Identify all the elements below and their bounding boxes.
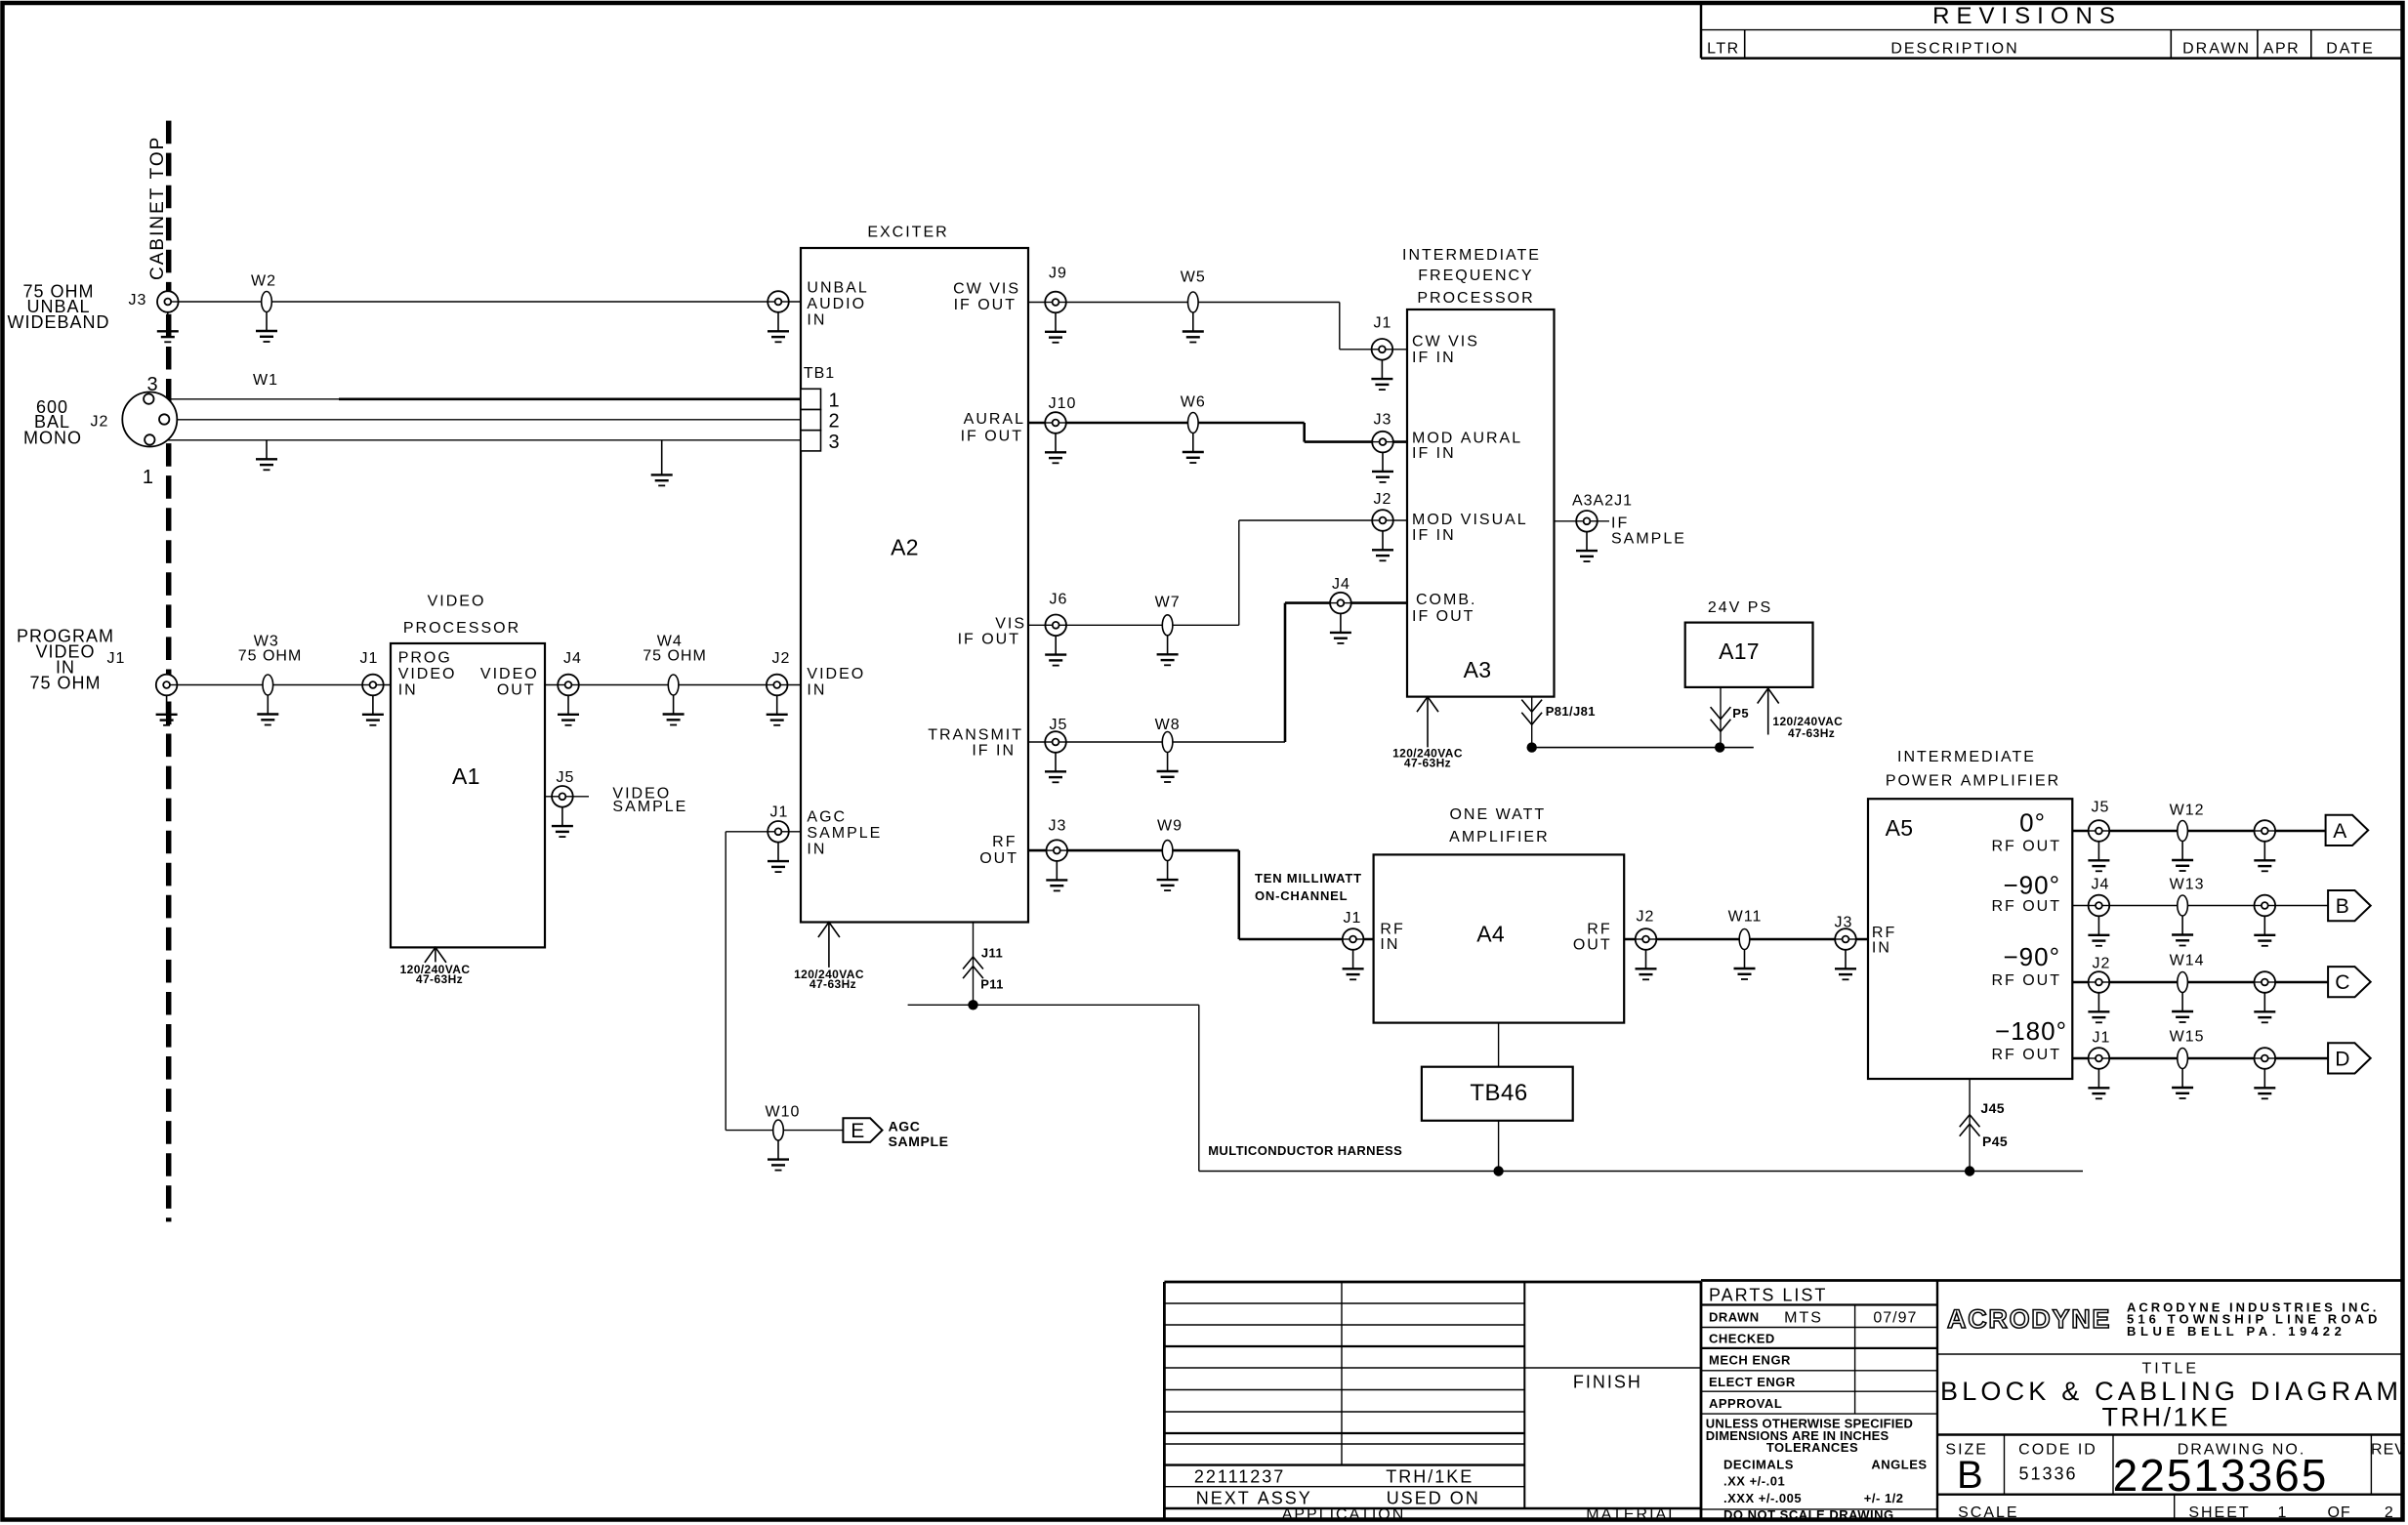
svg-text:REV: REV	[2371, 1442, 2406, 1459]
svg-text:−90°: −90°	[2003, 942, 2060, 971]
svg-text:J4: J4	[2092, 877, 2110, 893]
svg-text:ANGLES: ANGLES	[1871, 1458, 1927, 1472]
svg-text:−180°: −180°	[1995, 1016, 2067, 1046]
wire TB46 stems	[1498, 1023, 1500, 1172]
svg-text:22111237: 22111237	[1194, 1466, 1285, 1486]
svg-text:75 OHM: 75 OHM	[643, 648, 707, 665]
svg-text:2: 2	[2385, 1504, 2394, 1521]
svg-text:J2: J2	[772, 650, 791, 667]
svg-text:.XXX +/-.005: .XXX +/-.005	[1723, 1491, 1802, 1505]
svg-text:P81/J81: P81/J81	[1546, 704, 1596, 719]
mech engr row	[1709, 1353, 1791, 1368]
svg-text:A1: A1	[452, 763, 480, 789]
label pin 1	[143, 467, 153, 488]
svg-text:OUT: OUT	[1573, 936, 1612, 953]
ground at output B connector	[2254, 916, 2275, 946]
scale sheet row	[1958, 1504, 2394, 1521]
svg-text:J1: J1	[1374, 315, 1392, 332]
svg-text:TRH/1KE: TRH/1KE	[2102, 1403, 2231, 1432]
label A1 video out	[480, 666, 539, 699]
svg-text:VIS: VIS	[995, 615, 1026, 632]
wire program video row J1 to J2	[170, 684, 801, 686]
svg-text:IF IN: IF IN	[1412, 527, 1456, 544]
label J9	[1049, 266, 1067, 282]
ground at J5 video sample	[552, 807, 573, 838]
video processor A1 box	[391, 643, 545, 947]
label W10	[766, 1103, 801, 1120]
svg-text:RF: RF	[1587, 921, 1611, 937]
label P5	[1732, 706, 1749, 721]
svg-text:IF IN: IF IN	[1412, 445, 1456, 462]
label J45	[1980, 1100, 2005, 1116]
ground at J3 rf out	[1046, 861, 1067, 891]
ground at J3 A5	[1835, 950, 1856, 980]
svg-text:J5: J5	[2092, 800, 2110, 816]
svg-text:MONO: MONO	[23, 428, 82, 447]
svg-text:W14: W14	[2170, 953, 2205, 969]
label J4 A3	[1332, 576, 1350, 593]
ground at W5	[1183, 312, 1204, 343]
svg-text:MOD VISUAL: MOD VISUAL	[1412, 512, 1528, 528]
label W7	[1155, 595, 1181, 611]
label video sample	[612, 786, 687, 815]
connector pair P81/J81	[1521, 700, 1542, 725]
svg-text:SCALE: SCALE	[1958, 1504, 2018, 1521]
label ten milliwatt on-channel	[1255, 871, 1362, 903]
ground at output C connector	[2254, 993, 2275, 1023]
label J2 xlr	[91, 414, 109, 431]
connector J2 A3 mod visual if in	[1372, 510, 1393, 531]
svg-text:51336: 51336	[2018, 1464, 2077, 1484]
flag output C	[2328, 967, 2371, 997]
svg-text:A: A	[2333, 820, 2346, 843]
label transmit if in	[928, 727, 1023, 760]
svg-text:MATERIAL: MATERIAL	[1586, 1506, 1679, 1523]
label -90 deg rf out B	[1991, 870, 2061, 915]
connector J9 cw vis if out	[1045, 292, 1066, 313]
svg-text:P11: P11	[980, 977, 1004, 992]
svg-text:J3: J3	[1049, 818, 1067, 835]
svg-text:A17: A17	[1719, 639, 1760, 664]
wire XLR pin1 to TB1-3	[155, 439, 802, 441]
wire J3 to J4 unbal audio	[171, 301, 801, 303]
label aural if out	[961, 411, 1025, 444]
wire AGC sample J1 to E flag	[726, 832, 843, 1131]
flag E agc sample	[843, 1118, 882, 1142]
label A17	[1719, 639, 1760, 664]
label J3 A3	[1374, 412, 1392, 429]
label IPA title	[1886, 749, 2060, 790]
connector J3 A3 mod aural if in	[1372, 432, 1393, 453]
cable W5	[1188, 292, 1199, 312]
svg-text:J1: J1	[2093, 1030, 2111, 1047]
svg-text:W6: W6	[1181, 394, 1206, 411]
svg-text:VIDEO: VIDEO	[480, 666, 539, 682]
svg-text:COMB.: COMB.	[1416, 592, 1476, 608]
exciter A2 box	[801, 248, 1028, 923]
svg-text:TRANSMIT: TRANSMIT	[928, 727, 1023, 744]
flag output D	[2328, 1043, 2371, 1073]
checked row	[1709, 1332, 1775, 1346]
flag output A	[2326, 815, 2369, 845]
ground at J1 program video	[156, 695, 178, 725]
cable W14	[2178, 972, 2188, 993]
svg-text:W5: W5	[1181, 268, 1206, 285]
cable W15	[2178, 1049, 2188, 1069]
svg-text:J5: J5	[556, 769, 574, 786]
wire J45 drop from A5	[1969, 1079, 1971, 1172]
ground near TB1	[651, 440, 673, 486]
connector A3A2J1 if sample	[1576, 511, 1598, 532]
ground at W3	[257, 695, 278, 725]
label A1 prog video in	[398, 649, 457, 698]
wire AC power bus	[1532, 687, 1754, 748]
svg-text:J5: J5	[1050, 717, 1068, 733]
svg-text:BLUE BELL PA. 19422: BLUE BELL PA. 19422	[2127, 1324, 2346, 1339]
ground at J4 A1	[558, 695, 579, 725]
connector J1 A1 prog video	[362, 675, 384, 696]
connector J4 A1 video out	[558, 675, 579, 696]
one watt amplifier A4 box	[1374, 854, 1625, 1022]
label P45	[1982, 1133, 2008, 1149]
svg-text:RF: RF	[1872, 925, 1896, 941]
label A3	[1464, 657, 1492, 682]
svg-text:D: D	[2335, 1048, 2349, 1070]
connector J5 A5 rf out 0deg	[2089, 820, 2110, 842]
ground at J4 audio in	[768, 312, 789, 343]
label unbal audio in	[807, 280, 868, 329]
ground at W4	[663, 695, 685, 725]
label W3 75 ohm	[238, 634, 303, 665]
svg-text:FINISH: FINISH	[1573, 1372, 1642, 1391]
label exciter video in	[807, 666, 865, 699]
ground at J3 unbal	[157, 312, 179, 343]
ground at W11	[1734, 950, 1756, 980]
svg-text:USED ON: USED ON	[1387, 1488, 1480, 1507]
connector output row C	[2255, 971, 2276, 993]
label 0 deg rf out	[1991, 807, 2061, 854]
ground at J1 A5	[2088, 1069, 2109, 1099]
ground at J9	[1045, 312, 1066, 343]
svg-text:47-63Hz: 47-63Hz	[1404, 757, 1451, 770]
label P81/J81	[1546, 704, 1596, 719]
label J2 A3	[1374, 491, 1392, 508]
wire P11 branch line	[908, 1005, 1199, 1171]
connector J1 A3 cw vis if in	[1372, 339, 1393, 360]
label J6	[1050, 592, 1068, 608]
label IF processor title	[1402, 247, 1541, 307]
svg-text:TRH/1KE: TRH/1KE	[1386, 1466, 1474, 1486]
svg-text:RF OUT: RF OUT	[1991, 1047, 2061, 1063]
wire A5 J2 RF out row C	[2072, 981, 2328, 984]
label W5	[1181, 268, 1206, 285]
cable W4	[668, 675, 679, 695]
svg-text:2: 2	[829, 411, 840, 433]
svg-text:ON-CHANNEL: ON-CHANNEL	[1255, 888, 1348, 903]
svg-text:MULTICONDUCTOR HARNESS: MULTICONDUCTOR HARNESS	[1208, 1143, 1402, 1158]
svg-text:A3A2J1: A3A2J1	[1572, 492, 1633, 509]
junction TB46 harness node	[1493, 1166, 1503, 1175]
svg-text:DRAWN: DRAWN	[2182, 41, 2251, 58]
svg-text:A4: A4	[1476, 921, 1505, 946]
ground at A3A2J1	[1576, 532, 1598, 562]
ground at J2 A4	[1636, 950, 1657, 980]
svg-text:J1: J1	[360, 650, 379, 667]
junction P11 node	[968, 1000, 977, 1010]
label A4 rf in	[1380, 921, 1404, 952]
connector pair P11	[963, 967, 983, 979]
svg-text:TEN MILLIWATT: TEN MILLIWATT	[1255, 871, 1362, 886]
svg-text:REVISIONS: REVISIONS	[1932, 3, 2122, 29]
svg-text:IN: IN	[398, 682, 418, 699]
label program video in 75 ohm	[17, 626, 114, 692]
svg-text:APPROVAL: APPROVAL	[1709, 1396, 1782, 1411]
label if sample	[1611, 515, 1686, 547]
connector J2 A4 rf out	[1636, 928, 1657, 950]
connector J4 unbal audio in	[768, 291, 789, 312]
ground at J1 A3	[1371, 360, 1392, 391]
svg-text:.XX +/-.01: .XX +/-.01	[1723, 1474, 1785, 1489]
wire J3 RF out to A4 J1	[1028, 850, 1374, 939]
svg-text:IN: IN	[807, 842, 826, 858]
svg-text:DRAWN: DRAWN	[1709, 1309, 1760, 1324]
svg-text:IN: IN	[807, 311, 826, 328]
connector J2 A5 rf out -90deg	[2089, 971, 2110, 993]
cable W11	[1739, 929, 1750, 950]
svg-text:PROCESSOR: PROCESSOR	[403, 620, 520, 637]
svg-text:NEXT ASSY: NEXT ASSY	[1196, 1488, 1312, 1507]
connector J1 program video in	[156, 675, 178, 696]
svg-text:AGC: AGC	[807, 809, 847, 826]
label A17 AC power	[1772, 715, 1843, 740]
elect engr row	[1709, 1375, 1796, 1389]
svg-text:W8: W8	[1155, 717, 1181, 733]
svg-text:0°: 0°	[2019, 807, 2046, 837]
acrodyne logo	[1947, 1304, 2111, 1334]
label J1 A5	[2093, 1030, 2111, 1047]
ground at W14	[2172, 993, 2193, 1023]
svg-text:24V PS: 24V PS	[1708, 599, 1772, 616]
connector J4 A5 rf out -90deg	[2089, 895, 2110, 917]
svg-text:J3: J3	[129, 292, 147, 309]
approval row	[1709, 1396, 1782, 1411]
label exciter title	[867, 225, 948, 241]
label P11	[980, 977, 1004, 992]
label W11	[1728, 909, 1763, 926]
label J1 agc	[769, 804, 788, 821]
connector J2 XLR 600 bal mono	[122, 392, 177, 447]
svg-text:SAMPLE: SAMPLE	[1611, 530, 1686, 547]
svg-text:APPLICATION: APPLICATION	[1282, 1506, 1406, 1523]
svg-text:TITLE: TITLE	[2142, 1360, 2200, 1377]
label 600 bal mono	[23, 397, 82, 448]
label A1	[452, 763, 480, 789]
svg-text:J3: J3	[1835, 915, 1853, 931]
svg-text:A5: A5	[1886, 815, 1914, 841]
label -90 deg rf out C	[1991, 942, 2061, 989]
svg-text:75 OHM: 75 OHM	[29, 673, 101, 692]
cable W7	[1162, 615, 1173, 636]
label W1	[253, 372, 278, 389]
wire A4 J2 to A5 J3 RF	[1624, 938, 1868, 941]
ground at W9	[1157, 861, 1179, 891]
label TB1	[804, 365, 835, 382]
svg-text:UNBAL: UNBAL	[807, 280, 868, 297]
svg-text:J6: J6	[1050, 592, 1068, 608]
wire A5 J4 RF out row B	[2072, 905, 2328, 907]
wire J6 vis IF to A3 J2	[1028, 520, 1407, 625]
company address	[2127, 1299, 2381, 1339]
svg-text:47-63Hz: 47-63Hz	[1788, 726, 1835, 740]
svg-text:DESCRIPTION: DESCRIPTION	[1890, 41, 2018, 58]
wire J9 CW VIS IF to A3 J1	[1028, 303, 1407, 350]
svg-text:TB46: TB46	[1470, 1080, 1527, 1106]
ground at W2	[256, 312, 277, 343]
svg-text:WIDEBAND: WIDEBAND	[7, 312, 109, 332]
svg-text:IF OUT: IF OUT	[958, 632, 1020, 648]
ground at J2 A3	[1372, 531, 1393, 561]
svg-text:J1: J1	[107, 650, 126, 667]
svg-text:PROG: PROG	[398, 649, 452, 666]
label mod aural if in	[1412, 430, 1522, 462]
connector J4 A3 comb if out	[1330, 593, 1351, 614]
label A5 rf in	[1872, 925, 1896, 957]
label J5 exciter	[1050, 717, 1068, 733]
label W15	[2170, 1029, 2205, 1046]
title text	[1940, 1360, 2402, 1431]
connector pair P45	[1960, 1124, 1980, 1136]
svg-text:OUT: OUT	[979, 850, 1018, 867]
label J1 A3	[1374, 315, 1392, 332]
svg-text:OF: OF	[2327, 1504, 2350, 1521]
do not scale note	[1723, 1507, 1894, 1522]
wire exciter J11 drop	[973, 923, 975, 1006]
A17 AC power arrow	[1758, 688, 1779, 735]
label J1 A4	[1344, 910, 1362, 927]
wire A5 J1 RF out row D	[2072, 1057, 2328, 1060]
label J5 A5	[2092, 800, 2110, 816]
connector pair J45	[1960, 1115, 1980, 1128]
label J3 rf	[1049, 818, 1067, 835]
cable W3	[263, 675, 273, 695]
svg-text:AMPLIFIER: AMPLIFIER	[1449, 829, 1549, 845]
ground at J10	[1045, 433, 1066, 464]
label J5 A1	[556, 769, 574, 786]
wire J10 aural IF to A3 J3	[1028, 423, 1407, 442]
label A3 AC power	[1392, 746, 1463, 769]
cabinet top dashed partition	[147, 121, 169, 1222]
wire A3A2J1 IF sample stub	[1555, 520, 1610, 522]
label -180 deg rf out D	[1991, 1016, 2067, 1063]
svg-text:PARTS LIST: PARTS LIST	[1709, 1285, 1827, 1304]
label TB46	[1470, 1080, 1527, 1106]
svg-text:IN: IN	[1872, 940, 1891, 957]
svg-text:J1: J1	[769, 804, 788, 821]
svg-text:BLOCK & CABLING DIAGRAM: BLOCK & CABLING DIAGRAM	[1940, 1377, 2402, 1406]
ground at output A connector	[2254, 842, 2275, 872]
label rf out exciter	[979, 834, 1018, 867]
label cw vis if in A3	[1412, 334, 1479, 366]
svg-text:J10: J10	[1049, 395, 1077, 412]
label TB1 pin1	[829, 390, 840, 411]
svg-text:AURAL: AURAL	[964, 411, 1025, 428]
cable W13	[2178, 895, 2188, 916]
svg-text:J9: J9	[1049, 266, 1067, 282]
svg-text:SAMPLE: SAMPLE	[612, 799, 687, 815]
connector J1 A4 rf in	[1343, 928, 1364, 950]
label W8	[1155, 717, 1181, 733]
IPA A5 box	[1868, 799, 2072, 1079]
tolerance notes	[1706, 1417, 1928, 1506]
svg-text:P45: P45	[1982, 1133, 2008, 1149]
terminal board TB46 box	[1422, 1067, 1573, 1121]
connector J1 A5 rf out -180deg	[2089, 1048, 2110, 1069]
svg-text:J4: J4	[1332, 576, 1350, 593]
svg-text:J2: J2	[91, 414, 109, 431]
connector output row B	[2255, 895, 2276, 917]
24V PS A17 box	[1685, 623, 1813, 687]
label J1 A1	[360, 650, 379, 667]
ground at W10	[768, 1140, 789, 1171]
wire J5 video sample stub	[545, 796, 589, 798]
svg-text:W9: W9	[1157, 818, 1183, 835]
label 75 ohm unbal wideband	[7, 281, 109, 332]
svg-text:47-63Hz: 47-63Hz	[416, 972, 463, 986]
svg-text:J2: J2	[2093, 956, 2111, 972]
A3 AC power arrow	[1417, 697, 1438, 748]
ground at W13	[2172, 916, 2193, 946]
svg-text:J2: J2	[1374, 491, 1392, 508]
label agc sample in	[807, 809, 882, 858]
label agc sample flag	[889, 1119, 949, 1149]
label W6	[1181, 394, 1206, 411]
svg-text:+/- 1/2: +/- 1/2	[1864, 1491, 1904, 1505]
svg-text:1: 1	[143, 467, 153, 488]
svg-text:07/97: 07/97	[1873, 1310, 1917, 1327]
svg-text:−90°: −90°	[2003, 870, 2060, 899]
title block left texts	[1194, 1372, 1679, 1523]
svg-text:J3: J3	[1374, 412, 1392, 429]
ground at J5 transmit	[1045, 753, 1066, 783]
ground at W6	[1183, 433, 1204, 464]
ground at J3 A3	[1372, 452, 1393, 482]
svg-text:CHECKED: CHECKED	[1709, 1332, 1775, 1346]
label W12	[2170, 802, 2205, 818]
svg-text:MECH ENGR: MECH ENGR	[1709, 1353, 1791, 1368]
svg-text:CW VIS: CW VIS	[953, 281, 1020, 298]
A2 AC power arrow	[818, 923, 840, 968]
svg-text:W13: W13	[2170, 877, 2205, 893]
svg-text:75 OHM: 75 OHM	[238, 648, 303, 665]
svg-text:OUT: OUT	[497, 682, 536, 699]
label A2	[891, 534, 919, 559]
TB1 terminal 1 box	[801, 389, 821, 409]
svg-text:J11: J11	[981, 946, 1003, 961]
svg-text:J4: J4	[563, 650, 582, 667]
ground at J1 A1	[362, 695, 384, 725]
IF processor A3 box	[1407, 309, 1555, 697]
label video processor title	[403, 594, 520, 637]
label 24V PS	[1708, 599, 1772, 616]
ground at J2 exciter	[767, 695, 788, 725]
ground at J1 agc	[768, 843, 789, 873]
connector J3 75 ohm unbal	[157, 291, 179, 312]
svg-text:INTERMEDIATE: INTERMEDIATE	[1897, 749, 2036, 765]
connector J10 aural if out	[1045, 412, 1066, 433]
svg-text:MOD AURAL: MOD AURAL	[1412, 430, 1522, 446]
svg-text:DATE: DATE	[2326, 41, 2374, 58]
svg-text:W15: W15	[2170, 1029, 2205, 1046]
